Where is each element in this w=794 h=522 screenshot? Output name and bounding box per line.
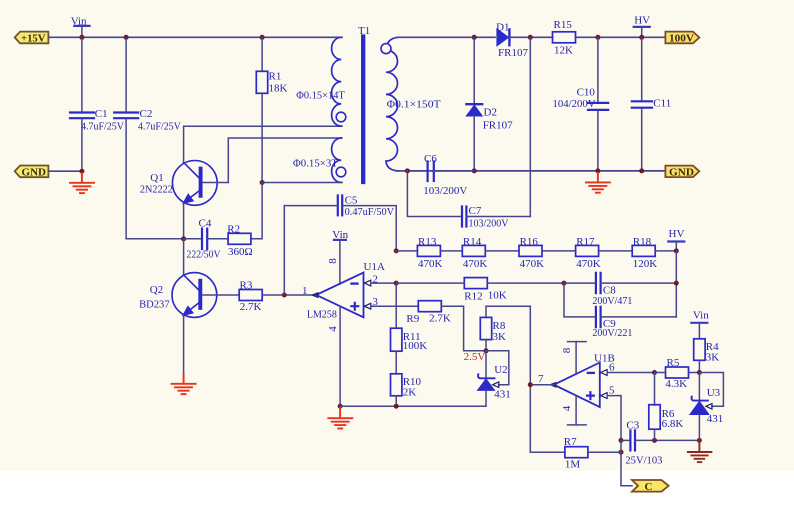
svg-text:0.47uF/50V: 0.47uF/50V — [345, 206, 395, 218]
junction D2 top — [472, 35, 477, 40]
svg-text:7: 7 — [538, 373, 544, 385]
svg-text:U1A: U1A — [364, 261, 385, 273]
resistor R17 — [576, 236, 633, 270]
svg-text:10K: 10K — [488, 290, 507, 302]
svg-text:R5: R5 — [667, 357, 680, 369]
transistor Q1 2N2222 — [140, 161, 217, 206]
power port Vin (top-left) — [71, 15, 90, 37]
resistor R12 — [396, 278, 564, 303]
power tag +15V — [15, 32, 49, 45]
wire pin 6 to R5 junction — [607, 372, 654, 374]
wire pin 7 to column — [530, 384, 554, 386]
svg-text:D1: D1 — [496, 22, 509, 34]
svg-text:2N2222: 2N2222 — [140, 183, 173, 195]
junction C11 bottom — [639, 168, 644, 173]
power tag GND (right) — [665, 166, 699, 179]
junction U3 anode / C3 row — [697, 438, 702, 443]
wire Q2 collector up to C4 row — [183, 239, 185, 275]
resistor R9 — [406, 301, 486, 351]
svg-text:C3: C3 — [626, 420, 639, 432]
transistor Q2 BD237 — [139, 273, 217, 318]
junction R3 / U1A out / C5 left — [282, 293, 287, 298]
svg-text:431: 431 — [707, 413, 724, 425]
wire Q2 emitter down to ground — [183, 315, 185, 378]
svg-text:R14: R14 — [463, 236, 482, 248]
resistor R16 — [519, 236, 576, 270]
capacitor C9 — [564, 283, 676, 339]
junction C6 left / secondary bottom — [405, 168, 410, 173]
ground (U3, dark red) — [688, 440, 712, 462]
svg-text:470K: 470K — [418, 258, 443, 270]
svg-text:3K: 3K — [493, 331, 507, 343]
junction R10 bottom / ground rail — [394, 404, 399, 409]
U1B pin 6 input arrow — [601, 370, 607, 376]
wire R13 row — [396, 250, 417, 252]
resistor R3 — [239, 279, 316, 313]
svg-text:Q1: Q1 — [150, 172, 163, 184]
svg-text:FR107: FR107 — [498, 47, 528, 59]
svg-text:4.7uF/25V: 4.7uF/25V — [81, 121, 124, 133]
junction pin2 / R12 row — [394, 281, 399, 286]
junction C4 row (4-way) — [181, 236, 186, 241]
resistor R10 — [391, 351, 422, 406]
junction at GND/C1 — [79, 169, 84, 174]
U1A pin 2 input arrow — [364, 280, 370, 286]
svg-text:25V/103: 25V/103 — [625, 454, 662, 466]
U1B pin 4 stub — [561, 396, 586, 425]
svg-text:120K: 120K — [633, 258, 658, 270]
svg-text:100K: 100K — [403, 340, 428, 352]
op-amp U1A LM258 — [307, 261, 385, 321]
resistor R18 — [632, 236, 676, 270]
wire +15V tag to rail — [48, 36, 342, 38]
wire U1A pin 4 down to ground rail — [339, 306, 341, 406]
wire Q1 emitter down to C4 row — [183, 203, 185, 239]
wire C7 left drop — [407, 171, 462, 217]
junction at R1 top — [260, 35, 265, 40]
U2 ref wire wrap — [486, 351, 509, 385]
svg-text:R16: R16 — [520, 236, 539, 248]
junction C10 bottom — [595, 168, 600, 173]
capacitor C3 — [621, 420, 699, 467]
svg-text:Q2: Q2 — [150, 284, 163, 296]
capacitor C2 — [114, 37, 181, 132]
svg-text:HV: HV — [634, 14, 650, 26]
diode D2 FR107 (vertical) — [466, 37, 513, 171]
U2 ref arrow — [493, 382, 499, 388]
junction R6 bottom / C3 row — [652, 438, 657, 443]
svg-text:470K: 470K — [520, 258, 545, 270]
svg-text:103/200V: 103/200V — [423, 185, 467, 197]
svg-text:C2: C2 — [140, 108, 153, 120]
svg-text:8: 8 — [561, 347, 573, 353]
winding2 polarity dot — [336, 167, 346, 177]
junction pin7 column — [528, 382, 533, 387]
wire secondary bottom rail to GND tag — [397, 170, 665, 172]
svg-text:R17: R17 — [576, 236, 595, 248]
resistor R13 — [417, 236, 462, 270]
resistor R11 — [391, 283, 428, 352]
power tag C — [632, 480, 669, 493]
svg-text:2.5V: 2.5V — [464, 351, 486, 363]
ground (U1A, red) — [328, 408, 352, 429]
svg-text:431: 431 — [494, 389, 511, 401]
svg-text:R2: R2 — [227, 223, 240, 235]
svg-text:3K: 3K — [706, 351, 720, 363]
capacitor C10 — [553, 37, 609, 171]
svg-text:R12: R12 — [464, 290, 482, 302]
transformer core — [361, 37, 365, 183]
resistor R6 — [649, 373, 684, 441]
winding1 polarity dot — [336, 112, 346, 122]
svg-text:D2: D2 — [484, 106, 497, 118]
svg-text:3: 3 — [372, 296, 378, 308]
svg-text:GND: GND — [22, 166, 47, 178]
svg-text:Φ0.15×3T: Φ0.15×3T — [293, 157, 338, 169]
svg-text:100V: 100V — [669, 33, 694, 45]
secondary polarity dot — [381, 44, 391, 54]
resistor R15 — [553, 19, 666, 56]
svg-text:8: 8 — [327, 258, 339, 264]
svg-text:6.8K: 6.8K — [662, 418, 684, 430]
ground rail wire — [340, 405, 486, 407]
wire R8 top over to pin7 column — [529, 306, 531, 452]
U1B pin 5 input arrow — [601, 393, 607, 399]
shunt regulator U3 431 — [690, 373, 723, 441]
wire D1 cathode to R15 — [509, 36, 552, 38]
svg-text:2K: 2K — [403, 387, 417, 399]
svg-text:5: 5 — [609, 384, 615, 396]
primary winding 1 (0.15x14T) — [332, 37, 342, 126]
svg-text:222/50V: 222/50V — [187, 248, 221, 260]
svg-text:18K: 18K — [269, 82, 288, 94]
svg-text:2: 2 — [372, 274, 378, 286]
svg-text:4: 4 — [561, 405, 573, 411]
junction C3 left — [619, 438, 624, 443]
svg-text:R3: R3 — [240, 279, 253, 291]
junction R15 / C10 — [595, 35, 600, 40]
svg-text:2.7K: 2.7K — [240, 301, 262, 313]
resistor R4 — [694, 339, 720, 373]
U1A pin 3 input arrow — [364, 303, 370, 309]
svg-text:C1: C1 — [95, 108, 108, 120]
wire C2 bottom down to C4 row — [126, 120, 184, 239]
svg-text:C6: C6 — [424, 153, 437, 165]
svg-text:R18: R18 — [633, 236, 652, 248]
junction R4/R5/U3 — [697, 370, 702, 375]
junction R1 bottom / winding2 bottom — [260, 180, 265, 185]
svg-text:C10: C10 — [577, 87, 596, 99]
wire pin 3 to R9 — [371, 305, 418, 307]
svg-text:4.3K: 4.3K — [665, 378, 687, 390]
power port HV (right) — [668, 228, 684, 251]
svg-text:4.7uF/25V: 4.7uF/25V — [138, 121, 181, 133]
svg-text:C4: C4 — [199, 218, 212, 230]
op-amp U1B LM258 — [554, 352, 615, 407]
primary winding 2 (0.15x3T) — [332, 138, 342, 182]
svg-text:Vin: Vin — [693, 309, 709, 321]
svg-text:200V/221: 200V/221 — [592, 327, 632, 339]
resistor R5 — [655, 357, 700, 390]
svg-text:R1: R1 — [269, 70, 282, 82]
power port HV (top) — [634, 14, 650, 37]
resistor R2 — [227, 223, 252, 258]
svg-text:C5: C5 — [345, 195, 358, 207]
svg-text:FR107: FR107 — [483, 120, 513, 132]
junction R7 right — [619, 450, 624, 455]
U1B output pin 7 arrow — [550, 383, 556, 387]
U3 ref wire wrap — [699, 373, 723, 407]
svg-text:Φ0.15×14T: Φ0.15×14T — [296, 89, 345, 101]
capacitor C6 — [407, 153, 474, 197]
svg-text:R15: R15 — [554, 19, 573, 31]
svg-text:C11: C11 — [653, 98, 671, 110]
svg-text:HV: HV — [669, 228, 685, 240]
svg-text:2.7K: 2.7K — [429, 313, 451, 325]
resistor R1 — [256, 37, 287, 182]
junction ground rail left — [338, 404, 343, 409]
svg-text:R9: R9 — [406, 313, 419, 325]
svg-text:LM258: LM258 — [307, 308, 337, 320]
svg-text:12K: 12K — [554, 44, 573, 56]
svg-text:470K: 470K — [463, 258, 488, 270]
diode D1 FR107 — [496, 22, 528, 59]
svg-text:U2: U2 — [494, 364, 507, 376]
svg-text:Φ0.1×150T: Φ0.1×150T — [387, 98, 441, 110]
ground (under C10, red) — [586, 173, 610, 193]
svg-text:C7: C7 — [469, 205, 482, 217]
svg-text:200V/471: 200V/471 — [592, 295, 632, 307]
secondary winding (0.1x150T) — [386, 37, 398, 171]
svg-text:4: 4 — [327, 326, 339, 332]
svg-text:1M: 1M — [565, 458, 581, 470]
wire Q1 base to winding2 top — [203, 138, 342, 183]
junction C8 left / C9 drop — [562, 281, 567, 286]
wire pin 2 to junction — [371, 282, 396, 284]
junction C8 right / HV column — [674, 281, 679, 286]
resistor R14 — [462, 236, 519, 270]
svg-text:+15V: +15V — [21, 32, 46, 44]
power tag 100V — [665, 32, 699, 45]
U1B pin 8 stub — [561, 342, 586, 374]
capacitor C4 — [184, 218, 229, 261]
junction D1 cathode / C7 — [528, 35, 533, 40]
svg-text:6: 6 — [609, 361, 615, 373]
junction at Vin/C1 — [79, 35, 84, 40]
power port Vin (U1A pin 8) — [332, 229, 348, 284]
ground (left, red) — [70, 173, 94, 193]
wire GND tag to C1 — [48, 170, 82, 172]
svg-text:BD237: BD237 — [139, 298, 170, 310]
svg-text:103/200V: 103/200V — [469, 217, 509, 229]
U1A output pin 1 arrow — [312, 293, 318, 297]
svg-text:R13: R13 — [418, 236, 437, 248]
svg-text:U3: U3 — [707, 387, 721, 399]
wire R1 junction down to R2 right — [251, 183, 262, 239]
junction at C2 — [124, 35, 129, 40]
svg-text:R7: R7 — [564, 436, 577, 448]
capacitor C8 — [564, 273, 676, 307]
wire C7 right up to D1 cathode — [529, 37, 531, 216]
svg-text:104/200V: 104/200V — [553, 98, 596, 110]
shunt regulator U2 431 — [478, 351, 511, 406]
junction R18/HV — [674, 248, 679, 253]
wire pin5 column down to C tag — [621, 440, 632, 485]
wire secondary top to D1 — [397, 36, 495, 38]
capacitor C11 — [632, 37, 671, 171]
capacitor C1 — [70, 37, 124, 171]
junction 2.5V node — [484, 348, 489, 353]
junction HV / C11 — [639, 35, 644, 40]
capacitor C5 — [284, 195, 396, 295]
svg-text:1: 1 — [302, 285, 308, 297]
wire HV column down — [675, 251, 677, 317]
junction D2 bottom — [472, 168, 477, 173]
svg-text:C: C — [645, 481, 653, 493]
wire winding2 bottom to R1 junction — [262, 182, 342, 184]
svg-text:360Ω: 360Ω — [228, 246, 253, 258]
capacitor C7 — [462, 205, 530, 229]
ground (Q2, red) — [172, 374, 196, 394]
power tag GND (left) — [15, 166, 49, 179]
power port Vin (R4 top) — [691, 309, 709, 338]
U3 ref arrow — [706, 404, 712, 410]
wire pin 5 right and down to C3 row — [607, 396, 621, 441]
resistor R8 — [480, 306, 530, 351]
resistor R7 — [530, 436, 621, 470]
wire Q2 base to R3 — [203, 294, 240, 296]
junction R5 left / R6 top — [652, 370, 657, 375]
junction C5/R13 — [394, 248, 399, 253]
svg-text:470K: 470K — [576, 258, 601, 270]
svg-text:GND: GND — [669, 166, 694, 178]
wire Q1 collector up to winding1 bottom — [184, 126, 342, 163]
